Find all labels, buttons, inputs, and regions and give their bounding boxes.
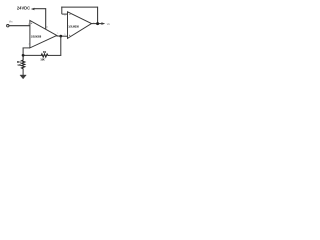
svg-text:1/2LM358: 1/2LM358 [68,24,79,28]
wire U1B feedback top [61,6,97,8]
label R1 [17,60,21,64]
wire node B up to step [22,48,24,56]
wire step horizontal [23,47,30,49]
wire U1B feedback right vertical [97,7,99,24]
svg-text:24VDC: 24VDC [17,5,31,10]
node Vin input label [9,19,13,23]
node 24VDC supply label [17,5,31,10]
junction node A (U1A output) [59,35,62,38]
label R2 [43,50,47,54]
input terminal circle [7,25,9,27]
wire supply horizontal [34,8,46,10]
pin 2 inverting U1A [28,44,30,46]
op-amp U1A 1/2 LM358 [30,21,57,48]
wire supply vertical to U1A V+ [45,8,47,29]
svg-text:R2: R2 [43,50,47,54]
junction node B [22,54,25,57]
pin 8 V+ U1A [46,26,48,29]
pin 5 non-inverting U1B [64,34,66,36]
svg-text:1/2LM358: 1/2LM358 [31,34,42,38]
svg-text:−: − [69,13,71,17]
label 10K [40,58,45,62]
pin 3 non-inverting U1A [28,24,30,26]
wire feedback bottom right segment [48,54,61,56]
wire R1 to ground [22,70,24,76]
wire U1B output [91,23,101,25]
pin 7 output U1B [93,23,95,25]
output arrow [101,22,105,25]
wire U1B feedback left vertical [61,7,63,15]
ground [20,75,26,79]
resistor R2 zigzag [41,54,49,57]
op-amp U1B 1/2 LM358 [68,12,92,39]
wire U1A output [57,35,69,37]
wire input to U1A non-inverting input [9,25,30,27]
node Vo output label [107,22,111,26]
label 1K [17,63,22,67]
wire R2 to node B [23,54,41,56]
svg-text:Vin: Vin [9,19,13,23]
svg-text:10K: 10K [40,58,45,62]
pin 1 output U1A [57,33,59,35]
supply terminal arrow [31,8,35,11]
pin 6 inverting U1B [64,15,66,17]
svg-text:Vo: Vo [107,22,111,26]
wire feedback branch down [60,36,62,55]
resistor R1 zigzag vertical [22,55,25,69]
wire U1B inverting input stub [62,13,68,15]
junction output node [96,22,99,25]
svg-text:+: + [31,21,33,25]
